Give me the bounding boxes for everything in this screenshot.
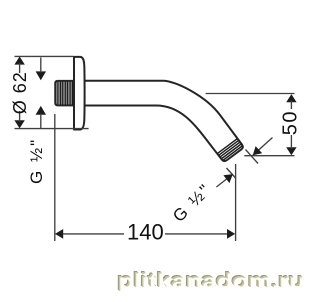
- outlet thread hatch (G 1/2 tip): [217, 139, 242, 161]
- dimension Ø62: bottom extension line: [15, 128, 89, 130]
- leader line from wall thread down (also 140 left extension): [54, 114, 56, 241]
- shower arm tube (bent spout): [80, 81, 243, 161]
- outlet thread dimension: lower arrow with leader: [216, 174, 232, 187]
- svg-text:G ½": G ½": [169, 180, 215, 226]
- svg-text:plitkanadom.ru: plitkanadom.ru: [119, 272, 306, 294]
- wall thread diameter arrows (G 1/2): [36, 71, 46, 114]
- svg-text:Ø 62: Ø 62: [10, 71, 30, 114]
- outlet thread dimension: lower extension tick: [227, 168, 237, 179]
- dimension Ø62: top extension line: [15, 55, 74, 57]
- dimension 140: dimension line with arrows: [55, 229, 235, 239]
- svg-text:G ½": G ½": [27, 138, 46, 184]
- wall flange (escutcheon): [74, 57, 85, 130]
- wall-side thread nipple G 1/2: [55, 81, 74, 106]
- watermark plitkanadom.ru: [116, 269, 306, 294]
- outlet thread dimension: upper extension tick: [246, 150, 259, 164]
- dimension 140: right extension line: [235, 164, 237, 241]
- dimension 50: top extension line: [206, 93, 295, 95]
- dimension 50: bottom extension line: [244, 155, 294, 157]
- svg-text:140: 140: [127, 219, 164, 244]
- dimension Ø62: dimension line with arrows: [14, 57, 24, 129]
- svg-text:50: 50: [280, 110, 302, 135]
- dimension 50: dimension line with arrows: [286, 94, 296, 155]
- outlet thread dimension: upper arrow with leader: [253, 138, 273, 156]
